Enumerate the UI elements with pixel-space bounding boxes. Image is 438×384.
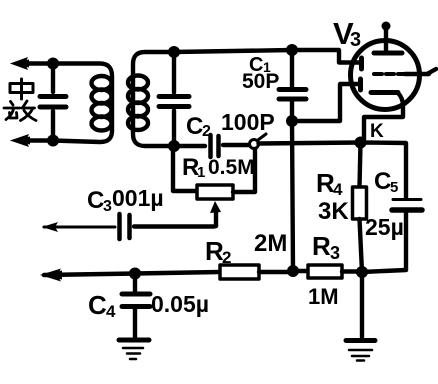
- node A: junction top-left: [47, 58, 59, 70]
- wire: terminal to node K: [259, 143, 361, 144]
- wire: node H to R3: [293, 269, 308, 273]
- wire: bottom bus input lead: [44, 274, 135, 276]
- node H: junction R2 R3 grid-leak: [287, 265, 299, 277]
- capacitor: IF secondary tuning cap upper lead: [172, 52, 176, 93]
- capacitor: IF secondary tuning cap lower lead: [172, 111, 176, 147]
- capacitor: IF secondary tuning cap plates: [159, 97, 189, 107]
- svg-text:50P: 50P: [242, 70, 279, 93]
- tube V3: lower-left electrode pin: [358, 79, 363, 90]
- wire: top-left output lead: [24, 61, 53, 65]
- svg-text:3: 3: [350, 29, 361, 51]
- label: 中 (IF) character: [10, 79, 33, 99]
- node D: junction secondary bottom: [168, 140, 180, 152]
- wire: C2 to slider terminal: [223, 143, 249, 147]
- capacitor C2 plates: [211, 135, 219, 157]
- wire: C3 to wiper: [134, 224, 216, 229]
- wire: bottom-left output lead: [24, 138, 53, 142]
- svg-text:3: 3: [330, 243, 340, 263]
- resistor R2 body: [220, 265, 259, 279]
- svg-text:2: 2: [222, 248, 231, 267]
- arrow: bottom-left output arrowhead: [10, 134, 30, 147]
- label: 放 (amp) character: [4, 101, 36, 121]
- svg-text:4: 4: [106, 302, 116, 321]
- wire: top bus from secondary to grid: [174, 50, 359, 63]
- node G: junction C4 tap: [129, 268, 141, 280]
- svg-text:3: 3: [103, 198, 112, 215]
- tube V3: grid lead right with tick: [405, 69, 436, 74]
- resistor R3 body: [308, 265, 342, 278]
- wire: C5 bottom to node J: [362, 213, 406, 272]
- svg-text:1: 1: [197, 164, 205, 181]
- capacitor C4 upper lead: [133, 274, 137, 293]
- arrow: top-left output arrowhead: [10, 57, 29, 70]
- svg-text:C: C: [88, 290, 107, 320]
- capacitor C5 top plate: [393, 198, 421, 201]
- wire: secondary bottom to C2: [174, 144, 205, 148]
- svg-text:2M: 2M: [254, 230, 287, 257]
- wire: node K down to R4: [360, 143, 361, 188]
- node F: junction C1 bottom: [286, 115, 298, 127]
- svg-text:4: 4: [333, 180, 343, 199]
- wire: R1 right up to terminal: [233, 149, 255, 192]
- node K: cathode junction: [355, 137, 367, 149]
- capacitor C4 lower lead: [133, 309, 137, 337]
- wire: C3 input lead: [44, 226, 115, 229]
- capacitor C4 plates: [122, 294, 150, 307]
- capacitor C1 upper lead: [290, 50, 294, 88]
- wire: bus to R2: [135, 272, 220, 274]
- svg-text:0.05µ: 0.05µ: [151, 291, 209, 317]
- terminal: open circle contact: [250, 134, 267, 149]
- inductor L2: IF transformer secondary winding: [128, 52, 174, 146]
- svg-text:2: 2: [202, 123, 211, 140]
- ground: under node J: [346, 338, 375, 343]
- inductor L1: IF transformer primary winding: [53, 64, 112, 143]
- tube V3: cathode lead to K: [364, 93, 403, 140]
- arrow: bottom bus arrowhead: [40, 269, 62, 282]
- tube V3: anode bar: [374, 51, 402, 56]
- wire: node J to ground: [360, 272, 364, 337]
- potentiometer R1 wiper arrow: [214, 210, 218, 226]
- wire: R3 to node J: [342, 269, 362, 273]
- capacitor: IF primary tuning cap upper lead: [51, 64, 55, 93]
- capacitor C1 plates: [279, 90, 306, 100]
- tube V3: upper-left electrode pin: [359, 58, 364, 69]
- node E: junction C1 top: [286, 44, 298, 56]
- capacitor C5 bottom plate: [392, 207, 422, 213]
- wire: R2 to node H: [259, 270, 293, 274]
- tube V3: anode lead and tip: [384, 27, 388, 51]
- svg-text:C: C: [87, 187, 104, 214]
- wire: node K right to C5 top: [361, 143, 407, 199]
- capacitor C1 lower lead: [290, 101, 294, 121]
- resistor R4 body: [353, 187, 367, 219]
- wire: R4 to node J: [360, 219, 363, 272]
- svg-text:C: C: [186, 113, 203, 140]
- capacitor C3 plates: [120, 214, 130, 239]
- wire: C1 bottom to lower grid electrode: [292, 84, 358, 121]
- wire: node D down to R1 left: [173, 146, 197, 191]
- svg-text:0.5M: 0.5M: [208, 156, 255, 179]
- tube V3: envelope: [351, 41, 420, 110]
- node J: junction R3 R4 C5 ground: [356, 266, 368, 278]
- svg-text:001µ: 001µ: [112, 185, 164, 211]
- arrow: C3 input arrowhead: [42, 222, 58, 232]
- svg-text:5: 5: [390, 179, 398, 196]
- svg-text:100P: 100P: [221, 109, 275, 135]
- svg-text:K: K: [370, 121, 384, 142]
- svg-text:1M: 1M: [308, 284, 339, 309]
- capacitor: IF primary tuning cap lower lead: [51, 111, 55, 141]
- node B: junction bottom-left: [47, 135, 59, 147]
- svg-text:R: R: [312, 231, 331, 261]
- svg-text:25µ: 25µ: [365, 214, 404, 240]
- tube V3: grid dashed electrode: [374, 72, 405, 76]
- resistor R1 body: [197, 185, 233, 199]
- capacitor: IF primary tuning cap plates: [40, 97, 66, 108]
- tube V3: cathode bar: [371, 90, 398, 95]
- ground: under C4: [119, 338, 149, 343]
- svg-text:C: C: [374, 168, 391, 195]
- svg-text:3K: 3K: [318, 198, 349, 225]
- node C: junction secondary top: [168, 46, 180, 58]
- wire: grid-leak vertical from node F to node H: [292, 121, 293, 271]
